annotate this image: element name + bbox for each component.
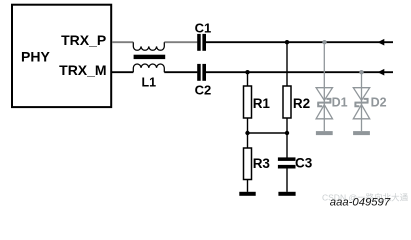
svg-text:C2: C2 bbox=[195, 83, 212, 98]
svg-text:L1: L1 bbox=[142, 76, 157, 90]
svg-text:TRX_P: TRX_P bbox=[61, 32, 106, 48]
svg-text:R1: R1 bbox=[253, 96, 271, 111]
svg-text:D2: D2 bbox=[371, 96, 387, 110]
svg-text:R2: R2 bbox=[293, 96, 310, 111]
svg-text:TRX_M: TRX_M bbox=[59, 62, 106, 78]
svg-text:C1: C1 bbox=[195, 21, 212, 36]
svg-text:R3: R3 bbox=[253, 156, 271, 171]
svg-text:D1: D1 bbox=[332, 96, 348, 110]
svg-text:PHY: PHY bbox=[21, 49, 50, 65]
svg-text:aaa-049597: aaa-049597 bbox=[330, 197, 391, 209]
svg-text:C3: C3 bbox=[295, 155, 313, 170]
